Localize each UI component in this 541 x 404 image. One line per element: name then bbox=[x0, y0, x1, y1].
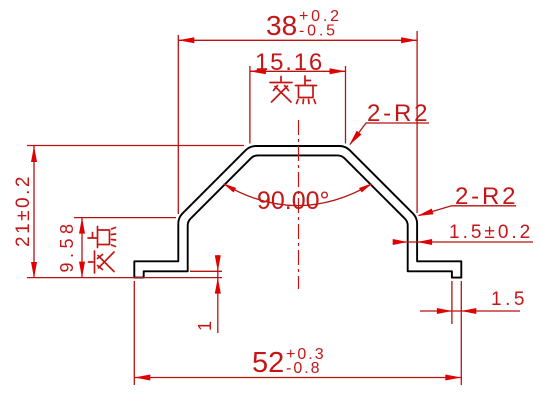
dim 38 dimension line bbox=[178, 39, 417, 41]
hat channel profile outline bbox=[134, 146, 461, 278]
dim 21 bottom arrow bbox=[31, 262, 37, 278]
dim 21 top extension line bbox=[27, 145, 244, 147]
svg-text:-0.5: -0.5 bbox=[299, 23, 338, 40]
dim 1.5 bottom-right dimension line bbox=[420, 310, 520, 312]
svg-text:1.5: 1.5 bbox=[491, 289, 528, 310]
dim 15.16 right arrow bbox=[330, 68, 346, 74]
arrowheads bbox=[31, 37, 476, 380]
dim 52 dimension line bbox=[134, 377, 461, 379]
angle arc right arrow bbox=[359, 183, 372, 192]
leader 2-R2 right bbox=[419, 206, 516, 216]
dim 1.5 left arrow (outside) bbox=[437, 308, 452, 314]
chinese 交点 left (rotated) bbox=[88, 227, 116, 274]
dim 1 dimension line bbox=[217, 255, 219, 333]
dim 21 top arrow bbox=[31, 146, 37, 162]
center line (dash-dot) bbox=[298, 120, 300, 289]
dim 1.5 right arrow (outside) bbox=[461, 308, 476, 314]
dim 21 dimension line bbox=[33, 146, 35, 278]
dim 52 left arrow bbox=[134, 375, 150, 381]
dim 38 left arrow bbox=[178, 37, 194, 43]
dim 1 upper extension line bbox=[190, 270, 222, 272]
dim 1.5±0.2 left arrow (outside) bbox=[393, 239, 408, 245]
svg-text:38: 38 bbox=[266, 10, 297, 41]
dim 1.5±0.2 right arrow (outside) bbox=[417, 239, 432, 245]
angle 90 arc bbox=[224, 184, 371, 205]
dim 52 extension lines bbox=[133, 281, 135, 385]
leader 2-R2 top bbox=[350, 123, 429, 145]
dim 15.16 dimension line bbox=[250, 70, 346, 72]
char 点 bbox=[296, 76, 317, 104]
dim 52 right arrow bbox=[445, 375, 461, 381]
leader 2-R2 right arrow bbox=[417, 209, 433, 217]
svg-text:1.5±0.2: 1.5±0.2 bbox=[449, 222, 533, 243]
angle arc left arrow bbox=[223, 183, 236, 192]
svg-text:90.00°: 90.00° bbox=[257, 187, 330, 215]
dim 9.58 bottom arrow bbox=[79, 262, 85, 278]
char 交 bbox=[270, 77, 292, 103]
dim 9.58 top extension line bbox=[74, 217, 176, 219]
dim 9.58 top arrow bbox=[79, 218, 85, 234]
svg-text:21±0.2: 21±0.2 bbox=[13, 174, 34, 247]
dim 38 right arrow bbox=[401, 37, 417, 43]
dim 1.5±0.2 dimension line bbox=[393, 241, 533, 243]
dim 15.16 left arrow bbox=[250, 68, 266, 74]
svg-text:1: 1 bbox=[195, 321, 215, 331]
svg-text:-0.8: -0.8 bbox=[286, 360, 322, 377]
leader 2-R2 top arrow bbox=[349, 131, 361, 145]
svg-text:52: 52 bbox=[252, 347, 284, 379]
svg-text:9.58: 9.58 bbox=[57, 219, 77, 272]
dim 15.16 extension lines bbox=[249, 66, 251, 144]
dim 1.5 bottom-right extension line bbox=[451, 281, 453, 324]
svg-text:2-R2: 2-R2 bbox=[455, 183, 518, 210]
dim 38 extension lines bbox=[177, 35, 179, 214]
shared bottom extension line (21 / 9.58 / 1) bbox=[27, 277, 222, 279]
svg-text:15.16: 15.16 bbox=[255, 49, 324, 76]
dim 1 lower arrow (outside) bbox=[215, 278, 221, 294]
chinese 交点 top (drawn strokes) bbox=[88, 76, 317, 273]
svg-text:2-R2: 2-R2 bbox=[367, 100, 430, 127]
dim 1 upper arrow (outside) bbox=[215, 255, 221, 271]
dim 9.58 dimension line bbox=[81, 218, 83, 278]
